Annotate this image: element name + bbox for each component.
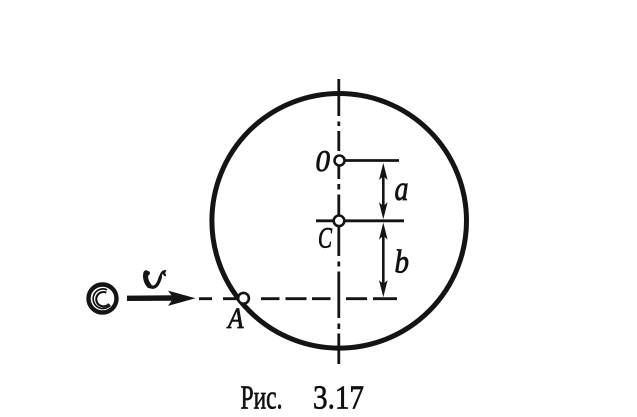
svg-text:3.17: 3.17 [313,380,364,417]
point C (small open circle, disk centre) [334,216,345,227]
horizontal line through O [344,159,399,162]
horizontal dashed trajectory line [199,297,397,300]
ball (shaded sphere) [89,285,117,313]
dimension arrow a (double-headed, O line to C line) [379,163,388,219]
label v (script velocity glyph) [143,270,165,287]
svg-text:0: 0 [316,143,331,178]
svg-text:b: b [395,244,410,280]
point A (small open circle on rim) [238,293,249,304]
vertical center axis (dash-dot) [337,79,340,364]
dimension arrow b (double-headed, C line to dashed line) [379,223,388,298]
svg-text:C: C [318,222,333,255]
disk circle [212,94,467,349]
horizontal line through C [316,219,404,222]
point O (small open circle) [335,156,345,166]
svg-text:A: A [226,302,244,335]
velocity arrow [127,291,196,306]
svg-text:Рис.: Рис. [241,380,283,417]
svg-text:a: a [395,169,409,208]
